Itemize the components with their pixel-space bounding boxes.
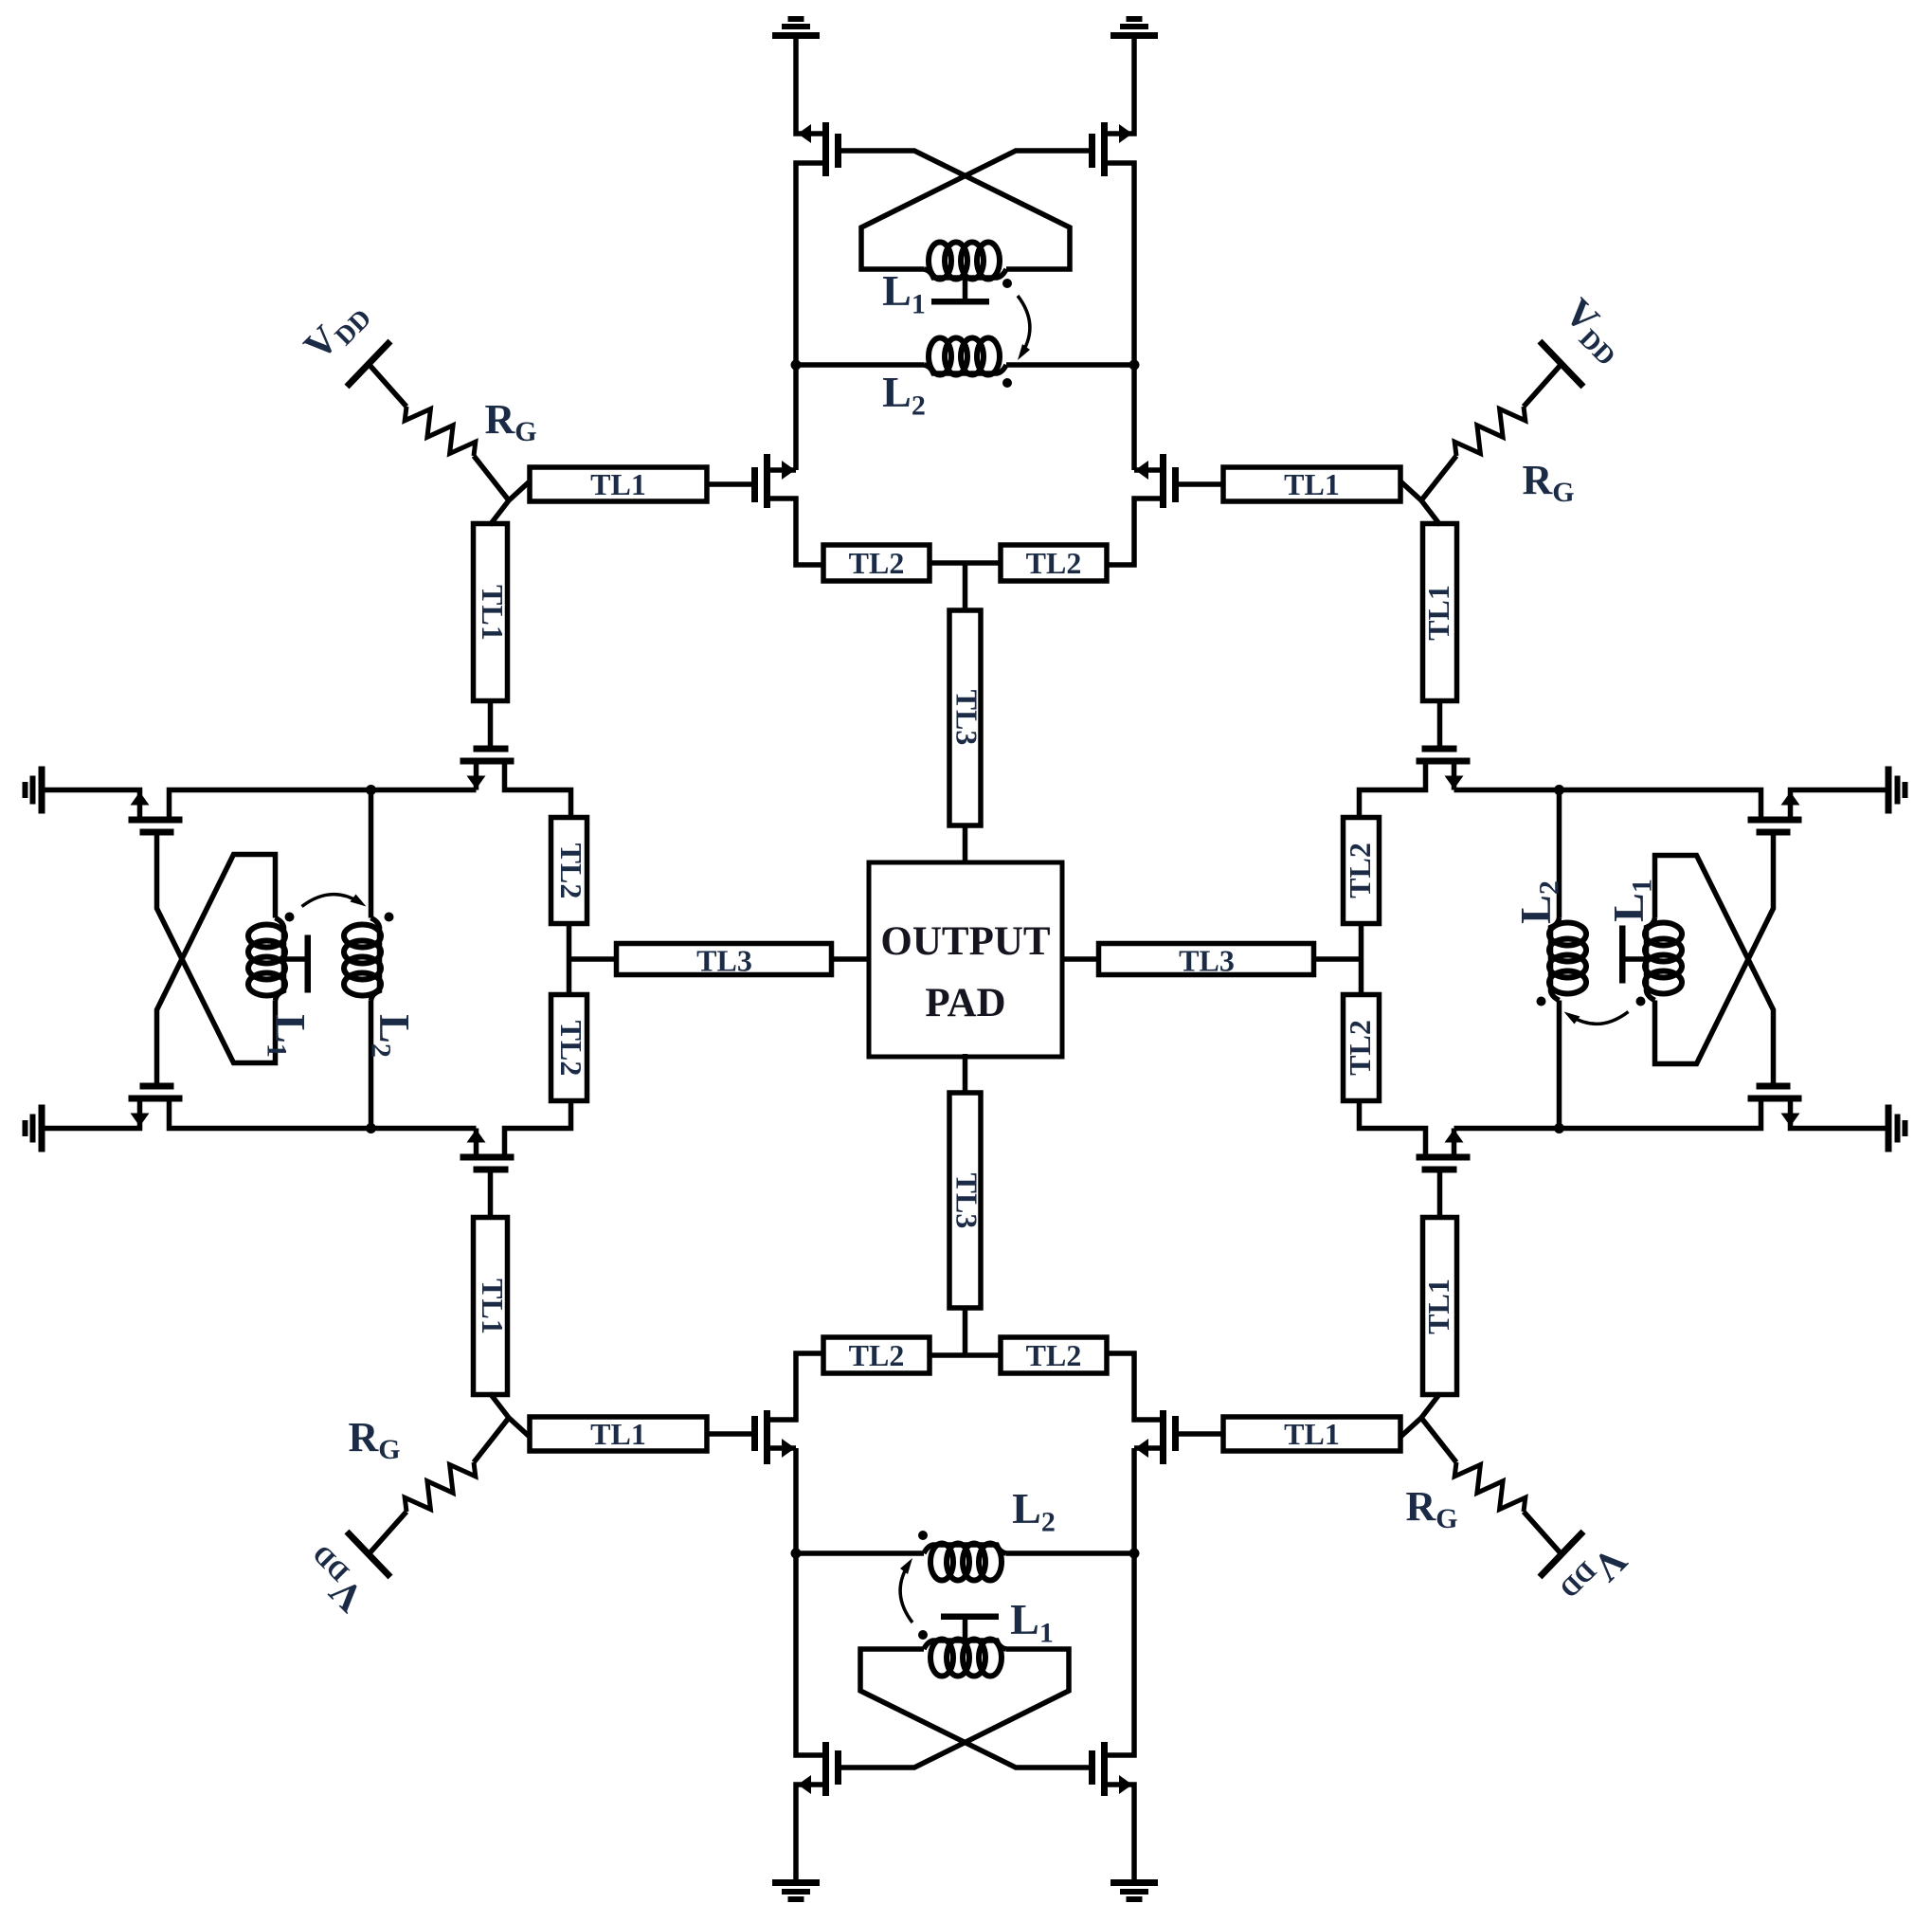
svg-text:TL1: TL1 [1284,467,1340,501]
svg-text:OUTPUT: OUTPUT [880,919,1051,964]
svg-text:TL1: TL1 [476,585,510,641]
svg-text:TL1: TL1 [590,467,646,501]
svg-text:TL2: TL2 [1026,1338,1082,1372]
svg-text:TL3: TL3 [696,944,752,978]
svg-text:TL2: TL2 [554,843,588,899]
svg-text:TL1: TL1 [590,1417,646,1451]
svg-text:TL3: TL3 [950,1173,984,1229]
svg-text:TL2: TL2 [1343,1020,1377,1076]
svg-text:PAD: PAD [925,981,1005,1025]
svg-text:TL2: TL2 [1343,843,1377,898]
svg-text:TL1: TL1 [1421,1278,1455,1334]
svg-text:TL3: TL3 [950,690,984,746]
svg-text:TL1: TL1 [1421,585,1455,641]
svg-text:TL2: TL2 [1026,546,1082,580]
svg-text:TL2: TL2 [849,1338,905,1372]
svg-text:TL3: TL3 [1179,944,1235,978]
svg-text:TL2: TL2 [849,546,905,580]
svg-text:TL1: TL1 [1284,1417,1340,1451]
svg-text:TL2: TL2 [554,1021,588,1077]
svg-text:TL1: TL1 [476,1278,510,1334]
